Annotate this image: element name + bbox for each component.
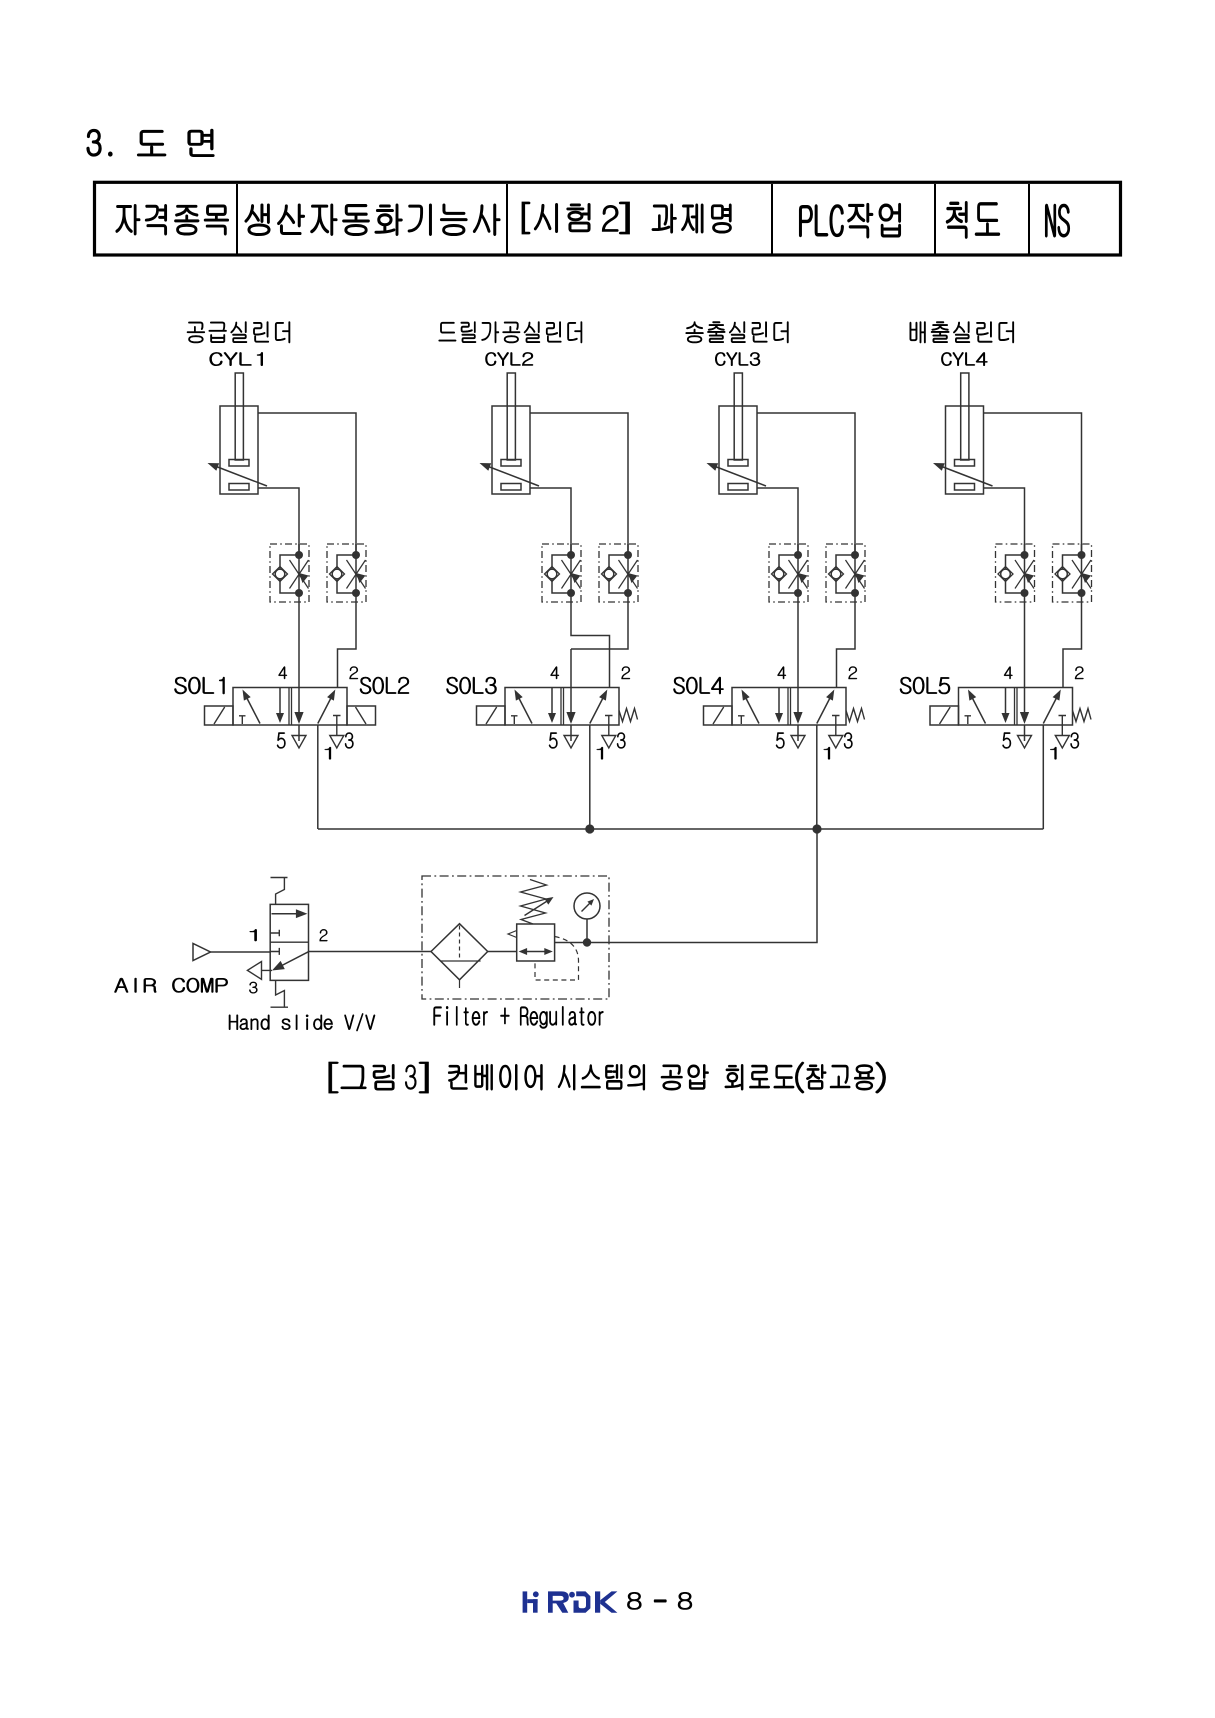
wire CYL1 rod-end port to flow valve [258, 488, 299, 556]
wire FCV to port 2 [338, 602, 357, 688]
5/2 solenoid valve SOL1/SOL2 [233, 688, 347, 749]
caption body [448, 1062, 885, 1093]
hand slide valve 3/2 [247, 878, 308, 1008]
wire FCV to centre port / internal exhaust arrow port 5 [292, 602, 306, 748]
caption [그림 3] [329, 1062, 429, 1093]
junction [812, 824, 821, 833]
cylinder CYL1 (vertical, rod up, adjustable cushion) [208, 373, 268, 494]
wire CYL2 cap-end port to flow valve [530, 413, 628, 556]
title: 3. 도 면 [87, 129, 214, 156]
HRDK logo [523, 1591, 618, 1612]
filter/regulator assembly box [422, 876, 609, 999]
wire port 1 of valve 1 to manifold [317, 725, 319, 829]
wire hand valve to filter [309, 951, 432, 953]
label 공급실린더 / CYL1 [187, 322, 290, 366]
label SOL5 [900, 677, 950, 694]
5/2 solenoid valve SOL4 [732, 688, 846, 749]
label 배출실린더 / CYL4 [910, 322, 1014, 366]
label Filter + Regulator [434, 1006, 604, 1028]
one-way flow control valve (unit 3.1) [769, 544, 808, 602]
5/2 solenoid valve SOL5 [959, 688, 1073, 749]
junction [585, 824, 594, 833]
solenoid SOL3 (left pilot) [477, 706, 506, 725]
wire FCV to port 2 (crossed) [571, 602, 610, 688]
label 드릴가공실린더 / CYL2 [439, 322, 582, 366]
air compressor source symbol [193, 944, 211, 961]
port number labels 4 2 5 3 1 [549, 667, 630, 760]
wire source to hand valve [211, 951, 271, 953]
filter with water trap [431, 924, 488, 988]
one-way flow control valve (unit 4.2) [1053, 544, 1092, 602]
label 송출실린더 / CYL3 [686, 322, 789, 366]
wire filter to regulator [488, 951, 517, 953]
wire FCV to centre port [571, 602, 628, 649]
label SOL3 [447, 677, 497, 694]
wire CYL4 cap-end port to flow valve [984, 413, 1082, 556]
solenoid SOL4 (left pilot) [704, 706, 733, 725]
one-way flow control valve (unit 2.2) [599, 544, 638, 602]
wire port 1 of valve 3 to manifold [816, 725, 818, 829]
wire FCV to port 2 [1063, 602, 1082, 688]
label Hand slide V/V [229, 1013, 375, 1031]
label SOL2 [360, 677, 409, 694]
port number labels 4 2 5 3 1 [1003, 667, 1084, 760]
one-way flow control valve (unit 4.1) [996, 544, 1035, 602]
port number labels 4 2 5 3 1 [776, 667, 857, 760]
pressure regulator [508, 880, 579, 981]
wire FCV to centre port / internal exhaust arrow port 5 [791, 602, 805, 748]
wire manifold to regulator output [555, 829, 817, 943]
cylinder CYL4 (vertical, rod up, adjustable cushion) [933, 373, 993, 494]
header table [95, 182, 1121, 255]
return spring [1073, 709, 1092, 722]
one-way flow control valve (unit 1.2) [327, 544, 366, 602]
wire CYL3 rod-end port to flow valve [757, 488, 798, 556]
wire CYL4 rod-end port to flow valve [984, 488, 1025, 556]
wire CYL3 cap-end port to flow valve [757, 413, 855, 556]
solenoid SOL1 (left pilot) [205, 706, 234, 725]
solenoid SOL5 (left pilot) [930, 706, 959, 725]
internal exhaust arrow / port 5 [564, 649, 578, 748]
wire port 1 of valve 4 to manifold [1042, 725, 1044, 829]
label AIR COMP [115, 978, 228, 993]
manifold supply line [318, 828, 1043, 830]
label SOL4 [674, 677, 724, 694]
cylinder CYL3 (vertical, rod up, adjustable cushion) [707, 373, 767, 494]
hand valve port labels 1 2 3 [249, 929, 327, 993]
5/2 solenoid valve SOL3 [505, 688, 619, 749]
port number labels 4 2 5 3 1 [277, 667, 358, 760]
one-way flow control valve (unit 2.1) [542, 544, 581, 602]
solenoid SOL2 (right pilot) [347, 706, 376, 725]
wire FCV to centre port / internal exhaust arrow port 5 [1018, 602, 1032, 748]
one-way flow control valve (unit 1.1) [270, 544, 309, 602]
return spring [619, 709, 638, 722]
one-way flow control valve (unit 3.2) [826, 544, 865, 602]
return spring [846, 709, 865, 722]
wire port 1 of valve 2 to manifold [589, 725, 591, 829]
wire CYL1 cap-end port to flow valve [258, 413, 356, 556]
page number 8 - 8 [627, 1592, 692, 1609]
pressure gauge [574, 893, 600, 947]
label SOL1 [175, 677, 225, 694]
cylinder CYL2 (vertical, rod up, adjustable cushion) [480, 373, 540, 494]
wire FCV to port 2 [837, 602, 856, 688]
wire CYL2 rod-end port to flow valve [530, 488, 571, 556]
